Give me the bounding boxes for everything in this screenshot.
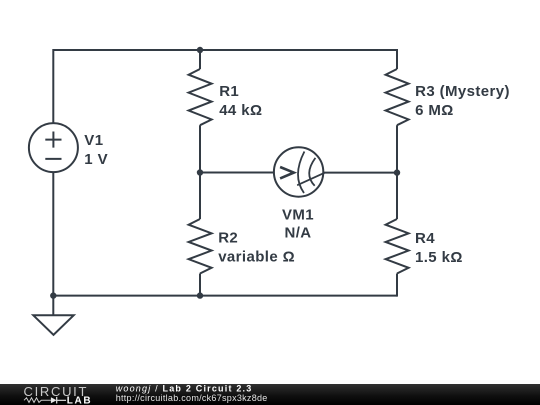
svg-text:R4: R4: [415, 230, 435, 247]
node top middle: [197, 47, 203, 53]
svg-text:R3 (Mystery): R3 (Mystery): [415, 83, 510, 100]
node bottom left: [50, 292, 56, 298]
svg-text:LAB: LAB: [67, 396, 93, 405]
VM1 needle: [298, 173, 324, 185]
svg-text:6 MΩ: 6 MΩ: [415, 102, 454, 119]
svg-text:R1: R1: [219, 83, 239, 100]
svg-text:1.5 kΩ: 1.5 kΩ: [415, 249, 463, 266]
wire bottom horizontal: [53, 295, 397, 297]
ground triangle: [33, 315, 73, 335]
node middle right: [394, 169, 400, 175]
footer bar: [0, 384, 540, 405]
wire top horizontal: [53, 49, 397, 51]
logo diode: [51, 397, 57, 403]
wire left column upper: [52, 49, 54, 123]
wire middle column R1 bottom lead: [199, 125, 201, 172]
V1 plus sign: [45, 132, 61, 148]
wire middle node to voltmeter: [200, 172, 274, 174]
wire right column R4 top lead: [396, 173, 398, 219]
wire middle column R2 top lead: [199, 173, 201, 220]
VM1 dial left arc: [298, 152, 304, 194]
logo resistor squiggle: [24, 398, 51, 403]
svg-text:VM1: VM1: [282, 206, 314, 223]
svg-text:N/A: N/A: [284, 224, 311, 241]
svg-text:R2: R2: [218, 230, 238, 247]
resistor R1: [189, 69, 212, 125]
resistor R3: [386, 69, 409, 125]
wire left column lower: [52, 172, 54, 296]
wire middle column R1 top lead: [199, 50, 201, 69]
V1 minus sign: [45, 158, 61, 160]
node middle left: [197, 169, 203, 175]
svg-text:http://circuitlab.com/ck67spx3: http://circuitlab.com/ck67spx3kz8de: [116, 393, 268, 403]
resistor R2: [189, 219, 212, 274]
svg-text:V1: V1: [84, 132, 103, 149]
resistor R4: [386, 219, 409, 274]
node bottom middle: [197, 292, 203, 298]
voltmeter VM1 circle: [274, 147, 323, 196]
wire right column R4 bottom lead: [396, 274, 398, 297]
ground lead: [52, 296, 54, 316]
svg-text:44 kΩ: 44 kΩ: [219, 102, 262, 119]
wire voltmeter to right node: [323, 172, 397, 174]
wire middle column R2 bottom lead: [199, 274, 201, 296]
svg-text:1 V: 1 V: [84, 151, 108, 168]
VM1 chevron: [280, 167, 294, 178]
VM1 dial right arc: [309, 158, 315, 186]
svg-text:variable Ω: variable Ω: [218, 249, 295, 266]
wire right column R3 top lead: [396, 49, 398, 69]
voltage source V1 circle: [29, 123, 78, 172]
wire right column R3 bottom lead: [396, 125, 398, 172]
